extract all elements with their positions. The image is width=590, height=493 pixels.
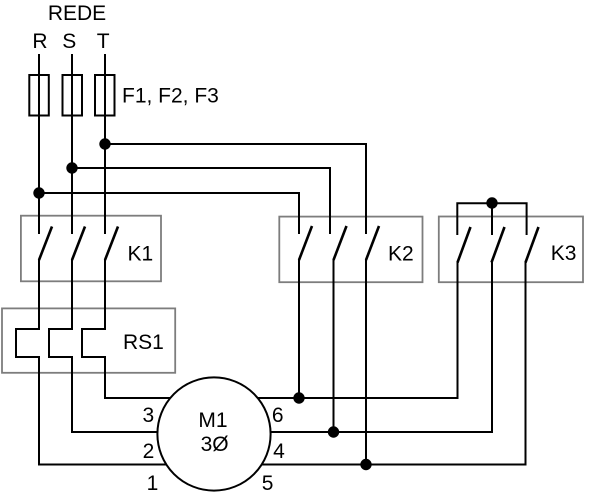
wire node 5 : motor terminal 5 to K3 pole 3	[214, 262, 526, 465]
svg-text:K2: K2	[388, 242, 414, 265]
contact K3 pole 1 blade	[458, 227, 471, 263]
wire RS1 element 3 to motor terminal 3	[105, 356, 214, 398]
wire phase T vertical	[104, 54, 106, 234]
RS1 heater element 3	[82, 329, 106, 357]
svg-text:RS1: RS1	[123, 331, 164, 354]
wire K1 pole 1 bottom lead	[38, 259, 40, 330]
K3 shorting bar with leads	[457, 203, 526, 235]
fuse F1	[29, 75, 49, 116]
svg-text:6: 6	[272, 404, 284, 427]
contact K2 pole 1 blade	[299, 226, 312, 260]
motor M1 circle	[157, 377, 270, 490]
junction dot node 6	[293, 392, 304, 403]
junction dot T feed	[99, 138, 110, 149]
contact K2 pole 2 blade	[334, 226, 347, 260]
junction dot K3 bar	[486, 197, 497, 208]
junction dot node 5	[360, 459, 371, 470]
wire T feed to K2 pole 3	[105, 144, 366, 234]
svg-text:4: 4	[273, 440, 285, 463]
svg-text:5: 5	[262, 472, 274, 493]
wire K1 pole 2 bottom lead	[71, 259, 73, 330]
svg-text:M1: M1	[198, 409, 227, 432]
svg-text:REDE: REDE	[48, 2, 106, 25]
wire node 4 : motor terminal 4 to K3 pole 2	[214, 262, 492, 433]
RS1 heater element 1	[16, 329, 40, 357]
svg-text:1: 1	[147, 472, 159, 493]
svg-text:K1: K1	[128, 242, 154, 265]
wire phase R vertical	[38, 54, 40, 234]
contactor K2 box	[279, 217, 422, 283]
svg-text:S: S	[62, 30, 76, 53]
wire node 6 : motor terminal 6 to K3 pole 1	[214, 262, 458, 399]
wire K2 pole 1 bottom lead to node 6	[298, 259, 300, 398]
contact K2 pole 3 blade	[366, 226, 379, 260]
fuse F2	[63, 75, 83, 116]
wire R feed to K2 pole 1	[39, 193, 299, 234]
svg-text:2: 2	[143, 440, 155, 463]
svg-text:T: T	[97, 30, 110, 53]
contact K3 pole 2 blade	[492, 227, 505, 263]
contactor K3 box	[439, 217, 583, 283]
wire RS1 element 2 to motor terminal 2	[72, 356, 214, 432]
contact K1 pole 2 blade	[72, 227, 85, 261]
junction dot R feed	[33, 187, 44, 198]
junction dot node 4	[328, 426, 339, 437]
contact K3 pole 3 blade	[526, 227, 539, 263]
svg-text:3Ø: 3Ø	[201, 433, 229, 456]
svg-text:K3: K3	[551, 242, 577, 265]
contact K1 pole 3 blade	[105, 227, 118, 261]
wire K1 pole 3 bottom lead	[104, 259, 106, 330]
wire phase S vertical	[71, 54, 73, 234]
contactor K1 box	[21, 216, 161, 282]
junction dot S feed	[66, 162, 77, 173]
wire K2 pole 2 bottom lead to node 4	[333, 259, 335, 432]
RS1 heater element 2	[49, 329, 73, 357]
wire S feed to K2 pole 2	[72, 168, 330, 234]
wire RS1 element 1 to motor terminal 1	[39, 356, 214, 465]
svg-text:R: R	[32, 30, 47, 53]
svg-text:F1, F2, F3: F1, F2, F3	[122, 84, 219, 107]
wire K2 pole 3 bottom lead to node 5	[365, 259, 367, 465]
overload relay RS1 box	[2, 308, 175, 372]
svg-text:3: 3	[142, 404, 154, 427]
contact K1 pole 1 blade	[39, 227, 52, 261]
fuse F3	[95, 75, 115, 116]
